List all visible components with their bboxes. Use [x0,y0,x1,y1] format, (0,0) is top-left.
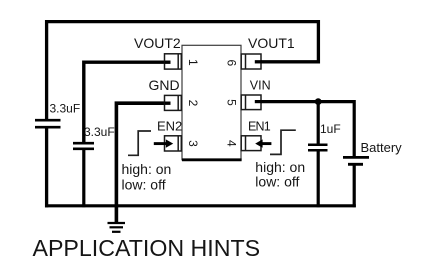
wire C3 bottom to ground rail [317,151,320,208]
svg-text:EN1: EN1 [248,119,271,133]
pin 2 wire stub [165,101,171,104]
pin 5 wire stub [255,100,262,103]
svg-text:low: off: low: off [122,176,166,192]
EN1 drive arrow into pin 4 [255,139,271,147]
svg-text:Battery: Battery [361,140,403,155]
svg-text:VIN: VIN [250,79,271,93]
wire GND net: pin 2 down to ground symbol [116,103,170,223]
battery BT1 [343,157,369,164]
pin 5 box [241,95,261,110]
ground symbol [108,223,126,232]
IC U1 body [182,45,242,160]
svg-text:3.3uF: 3.3uF [50,102,81,116]
capacitor C1 (3.3uF) [35,120,61,127]
pin 6 box [241,54,261,69]
EN1 logic-level hook [270,130,296,154]
svg-text:high: on: high: on [122,161,172,177]
svg-text:GND: GND [149,77,180,93]
svg-text:VOUT1: VOUT1 [248,35,295,51]
pin 6 wire stub [255,60,262,63]
svg-text:1: 1 [186,59,200,66]
pin 3 box [165,136,182,151]
pin 2 box [165,95,182,110]
wire VIN net: pin 5 to battery top corner [253,100,354,103]
svg-text:5: 5 [224,99,238,106]
pin 1 box [165,54,182,69]
svg-text:2: 2 [186,100,200,107]
svg-text:APPLICATION HINTS: APPLICATION HINTS [33,235,261,261]
svg-text:EN2: EN2 [157,118,182,133]
wire C1 bottom to ground rail [45,128,48,207]
capacitor C2 (3.3uF) [73,143,94,149]
wire VOUT1 net: pin 6 feed, top rail, left rail down to C1 [47,22,319,120]
svg-text:4: 4 [224,140,238,147]
wire VIN junction down to C3 [317,102,320,145]
svg-text:VOUT2: VOUT2 [134,35,181,51]
svg-text:1uF: 1uF [320,122,341,136]
junction dot VIN/C3 [315,98,322,105]
wire C2 bottom to ground rail [82,148,85,207]
capacitor C3 (1uF) [308,145,328,150]
EN2 logic-level hook [128,131,151,155]
pin 4 box [241,136,261,151]
svg-text:low: off: low: off [255,174,299,190]
wire battery top lead [353,100,356,157]
EN2 drive arrow into pin 3 [154,139,173,147]
pin 1 wire stub [165,61,171,64]
svg-text:6: 6 [224,59,238,66]
svg-text:high: on: high: on [255,159,305,175]
ground rail wire (bottom) [45,204,356,207]
svg-text:3: 3 [186,140,200,147]
wire battery bottom lead to ground rail [353,165,356,208]
svg-text:3.3uF: 3.3uF [84,125,115,139]
wire VOUT2 net: pin 1 to C2 [84,62,171,143]
